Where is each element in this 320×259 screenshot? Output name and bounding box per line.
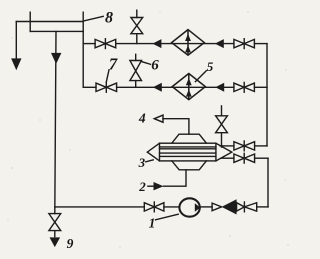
svg-text:8: 8 bbox=[105, 9, 113, 26]
svg-text:7: 7 bbox=[109, 54, 118, 73]
svg-text:6: 6 bbox=[151, 57, 159, 73]
svg-text:2: 2 bbox=[138, 179, 146, 194]
svg-text:5: 5 bbox=[207, 59, 214, 74]
svg-text:1: 1 bbox=[149, 215, 156, 230]
svg-text:3: 3 bbox=[138, 155, 146, 170]
svg-text:4: 4 bbox=[138, 111, 146, 126]
svg-text:9: 9 bbox=[67, 236, 74, 251]
